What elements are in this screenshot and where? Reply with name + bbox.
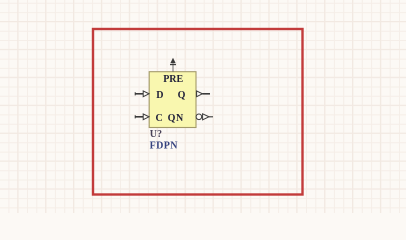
svg-text:D: D xyxy=(156,90,163,101)
crossbar xyxy=(170,64,176,66)
pin PRE (top) xyxy=(170,58,176,72)
component U? body (FDPN D flip-flop) xyxy=(149,72,196,128)
up arrow xyxy=(170,58,175,64)
svg-text:C: C xyxy=(156,113,163,124)
svg-text:U?: U? xyxy=(150,129,162,140)
pin C (left) xyxy=(135,114,149,120)
svg-text:Q: Q xyxy=(178,90,186,101)
pin Q (right) xyxy=(197,91,210,97)
svg-text:QN: QN xyxy=(168,113,184,124)
svg-text:FDPN: FDPN xyxy=(150,141,179,152)
pin D (left) xyxy=(135,91,149,97)
svg-text:PRE: PRE xyxy=(163,74,183,85)
wire xyxy=(172,64,174,72)
pin QN (right, inverted) xyxy=(196,114,213,120)
